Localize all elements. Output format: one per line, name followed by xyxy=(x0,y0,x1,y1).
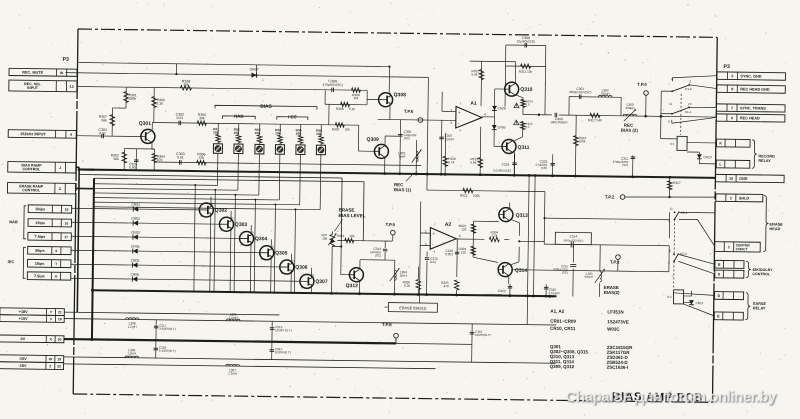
svg-text:R311 10k: R311 10k xyxy=(519,70,533,74)
svg-text:D: D xyxy=(292,259,294,263)
svg-text:NAB: NAB xyxy=(234,114,244,119)
svg-text:D: D xyxy=(211,202,213,206)
svg-text:7.5ips: 7.5ips xyxy=(34,274,45,278)
svg-text:W03C: W03C xyxy=(607,327,620,332)
svg-text:22/16V: 22/16V xyxy=(445,137,455,141)
svg-text:GND: GND xyxy=(739,177,748,181)
svg-text:3: 3 xyxy=(450,121,452,125)
svg-text:C314: C314 xyxy=(569,234,577,238)
svg-text:15k: 15k xyxy=(353,96,359,100)
svg-text:R319: R319 xyxy=(337,234,345,238)
svg-text:22µ/50V(CE): 22µ/50V(CE) xyxy=(517,39,536,43)
svg-text:4: 4 xyxy=(70,133,72,137)
svg-text:1.2mH: 1.2mH xyxy=(127,351,136,355)
svg-text:S: S xyxy=(281,271,283,275)
svg-text:I EC: I EC xyxy=(288,114,297,119)
svg-text:Q309: Q309 xyxy=(367,137,380,143)
svg-text:0.01/50V(CE): 0.01/50V(CE) xyxy=(493,168,511,172)
svg-text:D: D xyxy=(252,230,254,234)
svg-text:100k: 100k xyxy=(473,194,480,198)
svg-text:+: + xyxy=(432,231,435,236)
svg-text:-18V: -18V xyxy=(18,364,27,368)
svg-text:(CE): (CE) xyxy=(541,166,547,170)
svg-text:0.001: 0.001 xyxy=(129,165,137,169)
svg-text:9: 9 xyxy=(731,116,733,120)
svg-text:T.P.3: T.P.3 xyxy=(610,259,620,264)
svg-text:0.01: 0.01 xyxy=(99,131,106,135)
svg-text:D: D xyxy=(312,273,314,277)
svg-text:CR05: CR05 xyxy=(131,259,140,263)
svg-text:10k: 10k xyxy=(296,132,302,136)
svg-text:10k: 10k xyxy=(234,131,240,135)
svg-text:Q312: Q312 xyxy=(346,283,359,289)
svg-text:3.3/25V(D.T.): 3.3/25V(D.T.) xyxy=(159,349,176,353)
svg-text:10/25V(D.T.): 10/25V(D.T.) xyxy=(475,333,491,337)
svg-text:(SC): (SC) xyxy=(375,254,381,258)
svg-text:R321: R321 xyxy=(460,194,468,198)
svg-text:3300µ/125V(SC): 3300µ/125V(SC) xyxy=(569,90,591,94)
svg-text:J: J xyxy=(59,166,61,170)
svg-text:R308: R308 xyxy=(336,107,344,111)
svg-text:30ips: 30ips xyxy=(35,249,45,253)
svg-text:5: 5 xyxy=(731,74,733,78)
svg-text:SYNC. TRANS: SYNC. TRANS xyxy=(740,106,766,110)
svg-text:CONTROL: CONTROL xyxy=(22,188,41,192)
svg-text:Q309, Q312: Q309, Q312 xyxy=(550,364,575,369)
svg-text:Q306: Q306 xyxy=(295,265,308,271)
svg-text:6: 6 xyxy=(484,112,486,116)
svg-text:A1: A1 xyxy=(470,101,477,107)
svg-text:REC HEAD: REC HEAD xyxy=(740,116,760,120)
svg-text:2: 2 xyxy=(450,108,452,112)
svg-text:CR09: CR09 xyxy=(497,125,505,129)
svg-text:6.2k: 6.2k xyxy=(404,284,410,288)
svg-text:BIAS (2): BIAS (2) xyxy=(621,128,639,133)
svg-text:T.P.6: T.P.6 xyxy=(404,109,414,114)
svg-text:CR07: CR07 xyxy=(250,68,259,72)
svg-text:470: 470 xyxy=(443,284,449,288)
svg-text:RELAY: RELAY xyxy=(758,159,771,163)
svg-text:Q301: Q301 xyxy=(139,121,152,127)
svg-text:T.P.5: T.P.5 xyxy=(385,222,395,227)
svg-text:10k: 10k xyxy=(322,237,328,241)
svg-text:10k: 10k xyxy=(213,131,219,135)
svg-text:Q308: Q308 xyxy=(394,92,407,98)
svg-text:NAB: NAB xyxy=(9,219,18,224)
svg-text:10k: 10k xyxy=(183,83,189,87)
svg-text:T.P.4: T.P.4 xyxy=(637,82,647,87)
svg-text:K1-1: K1-1 xyxy=(685,110,692,114)
svg-text:100k: 100k xyxy=(579,139,586,143)
svg-text:10k: 10k xyxy=(255,131,261,135)
svg-text:10/25V (D.T.): 10/25V (D.T.) xyxy=(275,328,292,332)
svg-text:Q302: Q302 xyxy=(215,208,228,214)
svg-text:SYNC. GND: SYNC. GND xyxy=(740,74,761,78)
svg-text:BIAS (1): BIAS (1) xyxy=(394,187,412,192)
svg-text:10: 10 xyxy=(729,177,733,181)
svg-text:21: 21 xyxy=(58,310,62,314)
svg-text:Z: Z xyxy=(49,364,51,368)
svg-text:7: 7 xyxy=(731,106,733,110)
svg-text:CR11: CR11 xyxy=(695,301,703,305)
svg-text:IEC: IEC xyxy=(8,259,15,264)
svg-text:CONTROL: CONTROL xyxy=(23,167,42,171)
svg-text:Q310: Q310 xyxy=(520,87,533,93)
svg-text:1.5: 1.5 xyxy=(526,102,531,106)
svg-text:CR04: CR04 xyxy=(131,245,140,249)
svg-text:8: 8 xyxy=(718,272,720,276)
svg-text:Q307: Q307 xyxy=(315,279,328,285)
svg-text:11: 11 xyxy=(669,102,672,106)
svg-text:. 152kHz INPUT: . 152kHz INPUT xyxy=(18,132,46,136)
svg-text:30k: 30k xyxy=(199,116,205,120)
svg-text:+15V: +15V xyxy=(19,317,28,321)
svg-text:2: 2 xyxy=(730,196,732,200)
svg-text:D: D xyxy=(717,294,720,298)
svg-text:C: C xyxy=(59,187,62,191)
svg-text:RELAY: RELAY xyxy=(753,306,766,310)
svg-text:HEAD: HEAD xyxy=(769,226,780,231)
svg-text:2.2k: 2.2k xyxy=(491,234,497,238)
svg-text:1S2473VE: 1S2473VE xyxy=(607,319,629,324)
svg-text:+: + xyxy=(458,110,461,115)
svg-text:S: S xyxy=(200,214,202,218)
svg-text:CNDCT: CNDCT xyxy=(736,247,749,251)
svg-text:10k: 10k xyxy=(349,234,355,238)
svg-text:-15V: -15V xyxy=(19,357,28,361)
svg-text:5: 5 xyxy=(55,249,57,253)
svg-text:A1, A2: A1, A2 xyxy=(550,309,564,314)
svg-text:120: 120 xyxy=(461,227,467,231)
svg-text:B: B xyxy=(718,263,721,267)
svg-text:0.01: 0.01 xyxy=(177,116,184,120)
svg-text:1.5: 1.5 xyxy=(525,125,530,129)
svg-text:19: 19 xyxy=(57,357,61,361)
svg-text:3: 3 xyxy=(425,243,427,247)
svg-text:22: 22 xyxy=(57,364,61,368)
svg-text:56k: 56k xyxy=(113,157,119,161)
svg-text:5.6k: 5.6k xyxy=(471,73,477,77)
svg-text:470p/50V(SC): 470p/50V(SC) xyxy=(323,83,343,87)
svg-text:REC. MUTE: REC. MUTE xyxy=(22,71,43,75)
svg-text:S: S xyxy=(240,242,242,246)
svg-text:2.7k: 2.7k xyxy=(448,160,454,164)
svg-text:260µH: 260µH xyxy=(626,106,635,110)
svg-text:13: 13 xyxy=(70,85,74,89)
svg-text:Q305: Q305 xyxy=(275,250,288,256)
svg-text:56k: 56k xyxy=(101,118,107,122)
svg-text:17: 17 xyxy=(64,235,68,239)
svg-text:940µH: 940µH xyxy=(584,275,592,279)
svg-text:A2: A2 xyxy=(445,222,452,228)
svg-text:R326: R326 xyxy=(332,127,340,131)
svg-text:18: 18 xyxy=(58,317,62,321)
svg-text:2.2k: 2.2k xyxy=(157,102,164,106)
svg-text:(SC): (SC) xyxy=(622,163,628,167)
svg-text:K-1: K-1 xyxy=(670,142,675,146)
svg-text:330k: 330k xyxy=(129,97,137,101)
svg-text:P3: P3 xyxy=(724,64,731,70)
svg-text:0.01/50V(CE): 0.01/50V(CE) xyxy=(485,293,503,297)
svg-text:30ips: 30ips xyxy=(35,207,45,211)
svg-text:S: S xyxy=(261,257,263,261)
svg-text:CR10, CR11: CR10, CR11 xyxy=(550,326,576,331)
svg-text:100/10V(BP): 100/10V(BP) xyxy=(550,120,567,124)
svg-text:6: 6 xyxy=(459,234,461,238)
svg-text:0V: 0V xyxy=(21,337,26,341)
svg-text:1.2mH: 1.2mH xyxy=(128,325,137,329)
svg-text:SHLD: SHLD xyxy=(739,196,750,200)
svg-text:K-2: K-2 xyxy=(667,295,672,299)
svg-text:BIAS: BIAS xyxy=(260,104,272,110)
svg-text:Q304: Q304 xyxy=(255,236,268,242)
svg-text:3.3/25V(D.T.): 3.3/25V(D.T.) xyxy=(159,327,176,331)
svg-text:0.01: 0.01 xyxy=(430,260,436,264)
svg-text:330µH: 330µH xyxy=(601,92,610,96)
svg-text:1.2mH: 1.2mH xyxy=(229,316,238,320)
svg-text:CR03: CR03 xyxy=(131,231,140,235)
svg-text:16: 16 xyxy=(64,221,68,225)
svg-text:Q303: Q303 xyxy=(235,222,248,228)
svg-text:10k: 10k xyxy=(316,132,322,136)
svg-text:13: 13 xyxy=(688,102,692,106)
svg-text:2mH: 2mH xyxy=(400,274,407,278)
svg-text:S: S xyxy=(301,285,303,289)
svg-text:1.2mH: 1.2mH xyxy=(228,371,237,375)
svg-text:LF351N: LF351N xyxy=(607,309,623,314)
svg-text:ERASE BIAS(1): ERASE BIAS(1) xyxy=(399,306,427,310)
svg-text:470: 470 xyxy=(157,158,163,162)
svg-text:REC HEAD GND: REC HEAD GND xyxy=(740,87,770,91)
svg-text:CR01: CR01 xyxy=(131,203,140,207)
svg-text:D: D xyxy=(232,216,234,220)
svg-text:10k: 10k xyxy=(275,131,281,135)
svg-text:2SC1636-I: 2SC1636-I xyxy=(607,365,629,370)
svg-text:7.5ips: 7.5ips xyxy=(35,235,46,239)
svg-text:1: 1 xyxy=(728,245,730,249)
svg-text:CR08: CR08 xyxy=(497,106,505,110)
svg-text:10/25V(D.T.): 10/25V(D.T.) xyxy=(275,350,291,354)
svg-text:P3: P3 xyxy=(63,57,70,63)
svg-text:BIAS(2): BIAS(2) xyxy=(604,290,620,295)
svg-text:R317 240: R317 240 xyxy=(588,118,602,122)
svg-text:0.01: 0.01 xyxy=(177,155,184,159)
svg-text:BIAS LEVEL: BIAS LEVEL xyxy=(339,213,366,218)
svg-text:11: 11 xyxy=(670,207,673,211)
svg-text:5.6k: 5.6k xyxy=(470,161,476,165)
svg-text:15ips: 15ips xyxy=(35,262,45,266)
svg-text:C324: C324 xyxy=(502,163,510,167)
svg-text:CR01~CR09: CR01~CR09 xyxy=(550,319,576,324)
svg-text:+18V: +18V xyxy=(19,310,28,314)
svg-text:K: K xyxy=(719,141,722,145)
svg-text:(SC): (SC) xyxy=(562,270,568,274)
svg-text:(CE): (CE) xyxy=(549,294,555,298)
svg-text:20: 20 xyxy=(58,338,62,342)
svg-text:ChapaISF для forum.onliner.by: ChapaISF для forum.onliner.by xyxy=(566,390,778,406)
svg-text:2mH: 2mH xyxy=(399,155,406,159)
svg-text:22k: 22k xyxy=(199,156,205,160)
svg-text:0.001: 0.001 xyxy=(445,252,453,256)
svg-text:10k: 10k xyxy=(345,127,351,131)
svg-text:Q311: Q311 xyxy=(517,145,529,151)
svg-text:INPUT: INPUT xyxy=(27,86,39,90)
svg-text:CR02: CR02 xyxy=(131,217,140,221)
svg-text:CONTROL: CONTROL xyxy=(752,272,771,276)
svg-text:15: 15 xyxy=(65,208,69,212)
svg-text:CR06: CR06 xyxy=(130,273,139,277)
svg-text:120: 120 xyxy=(461,250,467,254)
svg-text:Q313: Q313 xyxy=(516,213,529,219)
svg-text:15ips: 15ips xyxy=(35,221,45,225)
svg-text:CR10: CR10 xyxy=(703,155,711,159)
svg-text:ERASE: ERASE xyxy=(339,207,355,212)
svg-text:(SC): (SC) xyxy=(404,136,410,140)
svg-text:Q314: Q314 xyxy=(515,268,528,274)
svg-text:8: 8 xyxy=(731,87,733,91)
svg-text:D: D xyxy=(272,244,274,248)
svg-text:T.P.2: T.P.2 xyxy=(605,194,615,199)
svg-text:K1-2: K1-2 xyxy=(685,87,692,91)
svg-text:R327: R327 xyxy=(673,181,681,185)
svg-text:K2-1: K2-1 xyxy=(681,211,688,215)
svg-text:5.1k: 5.1k xyxy=(349,107,355,111)
